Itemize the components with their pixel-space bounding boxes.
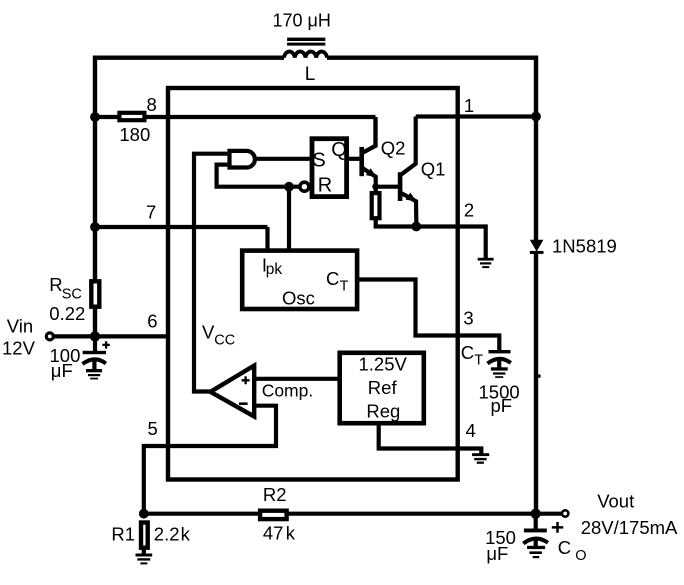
resistor R1	[141, 523, 148, 548]
svg-text:R2: R2	[263, 484, 287, 505]
ground under R1	[136, 548, 153, 565]
node junction on R input wire	[284, 182, 294, 192]
svg-text:Comp.: Comp.	[262, 381, 314, 401]
svg-text:C: C	[326, 268, 339, 289]
transistor Q1 emitter arrow	[406, 193, 417, 202]
inductor L coil	[284, 52, 327, 58]
capacitor 100uF stub	[93, 336, 97, 351]
node Vout	[531, 509, 541, 519]
wire left rail below Rsc	[93, 309, 97, 337]
Osc box	[242, 251, 357, 309]
transistor Q1 base bar	[398, 172, 403, 201]
label Ipk	[262, 255, 283, 278]
svg-text:28V/175mA: 28V/175mA	[581, 517, 678, 538]
svg-text:12V: 12V	[2, 338, 36, 359]
IC box MC34063	[168, 88, 458, 480]
svg-text:O: O	[575, 548, 586, 564]
wire right rail below diode	[534, 252, 538, 514]
transistor Q2 collector	[362, 118, 375, 153]
wire Vcc line to comparator	[194, 154, 227, 392]
wire pin 4	[379, 426, 482, 454]
wire top rail from left rail to inductor	[95, 56, 284, 60]
svg-text:R1: R1	[111, 524, 135, 545]
capacitor Ct top plate	[489, 350, 511, 353]
transistor Q2 emitter arrow	[366, 168, 377, 177]
svg-text:SC: SC	[62, 286, 82, 302]
capacitor Co curved plate	[523, 539, 548, 544]
svg-text:3: 3	[463, 307, 473, 328]
svg-text:7: 7	[146, 201, 156, 222]
diode 1N5819	[530, 240, 544, 254]
inductor L core bars	[287, 38, 325, 46]
resistor between Q2 emitter and pin 2	[372, 193, 380, 218]
resistor 180	[119, 113, 144, 120]
capacitor Co top plate	[524, 529, 547, 533]
capacitor Ct curved plate	[488, 359, 511, 364]
svg-text:2: 2	[464, 200, 474, 221]
label 2.2k	[154, 524, 191, 545]
svg-text:T: T	[340, 279, 349, 295]
label Rsc	[49, 274, 82, 303]
transistor Q1 emitter	[401, 193, 416, 227]
svg-text:8: 8	[147, 94, 157, 115]
wire AND gate output to S input	[255, 157, 310, 161]
node Q2 emitter / Q1 base junction	[372, 183, 379, 190]
svg-text:0.22: 0.22	[49, 303, 85, 324]
wire pin 2	[374, 218, 486, 259]
svg-text:Osc: Osc	[282, 288, 315, 309]
svg-text:Q2: Q2	[381, 137, 406, 158]
capacitor 100uF curved plate	[83, 359, 106, 364]
wire junction to Osc box	[287, 187, 291, 250]
wire Q1 base	[376, 185, 400, 189]
svg-text:1.25V: 1.25V	[359, 354, 408, 375]
transistor Q2 emitter	[363, 168, 376, 191]
label Ct outside	[461, 342, 484, 369]
inverter bubble on R input	[300, 182, 309, 191]
svg-text:6: 6	[147, 310, 157, 331]
svg-text:Q: Q	[331, 139, 347, 161]
Ref Reg box	[340, 353, 424, 423]
wire pin 5	[144, 406, 276, 514]
comparator	[210, 366, 254, 417]
terminal Vin	[46, 333, 53, 340]
transistor Q2 base bar	[359, 147, 364, 176]
capacitor 100uF lead to ground	[92, 359, 96, 370]
label Vcc	[202, 321, 235, 348]
ground at pin 4	[472, 453, 489, 464]
ground at pin 2	[478, 258, 494, 268]
svg-text:47: 47	[263, 523, 284, 544]
wire AND gate lower input to R bubble	[217, 165, 300, 187]
wire pin 3 from Osc Ct output	[357, 280, 499, 352]
transistor Q1 collector	[401, 117, 416, 175]
wire Q output to Q2 base	[349, 157, 363, 161]
ground under 100uF	[86, 369, 102, 379]
svg-text:C: C	[461, 342, 474, 363]
svg-text:1N5819: 1N5819	[552, 236, 617, 257]
svg-text:1: 1	[464, 95, 474, 116]
svg-text:170 μH: 170 μH	[273, 11, 331, 31]
node R1 R2 junction	[139, 509, 149, 519]
SR latch box	[312, 139, 347, 197]
svg-text:2.2: 2.2	[154, 524, 180, 545]
svg-text:CC: CC	[214, 332, 235, 348]
svg-text:5: 5	[148, 418, 158, 439]
capacitor 100uF top plate	[83, 351, 106, 354]
node Vin	[90, 331, 100, 341]
wire pin 8	[95, 117, 376, 153]
svg-text:μF: μF	[486, 543, 508, 564]
svg-text:Vin: Vin	[7, 316, 33, 337]
wire top rail from inductor to right rail	[327, 56, 536, 60]
svg-text:Reg: Reg	[366, 401, 400, 422]
svg-text:R: R	[318, 174, 332, 196]
capacitor Co plus sign	[552, 522, 563, 533]
svg-text:S: S	[312, 150, 325, 172]
svg-text:Vout: Vout	[597, 491, 634, 512]
capacitor Co lead to ground	[534, 539, 538, 547]
resistor Rsc	[91, 281, 99, 306]
svg-text:k: k	[181, 524, 191, 545]
node pin 7 on left rail	[90, 222, 100, 232]
ground under Ct	[491, 367, 508, 378]
svg-text:pF: pF	[491, 395, 513, 416]
svg-text:4: 4	[466, 420, 476, 441]
wire comparator plus input to Ref box	[254, 377, 337, 381]
terminal Vout	[562, 510, 568, 516]
node pin 1 on right rail	[531, 112, 541, 122]
artifact tick on right rail	[538, 375, 541, 378]
wire left rail	[93, 56, 97, 280]
svg-text:k: k	[286, 523, 296, 544]
AND gate U1	[230, 151, 255, 168]
svg-text:Ref: Ref	[368, 377, 398, 398]
wire pin 6 from Vin terminal	[52, 334, 168, 338]
svg-text:C: C	[558, 537, 571, 558]
label 47k	[263, 523, 296, 544]
wire right rail	[534, 56, 538, 242]
node Q1 emitter on pin 2 wire	[411, 222, 421, 232]
label Ct inside Osc	[326, 268, 349, 295]
label Co	[558, 537, 587, 564]
svg-text:V: V	[202, 321, 215, 342]
svg-text:μF: μF	[51, 360, 73, 381]
svg-text:R: R	[49, 274, 62, 295]
svg-text:L: L	[305, 64, 316, 85]
resistor R2	[260, 511, 287, 519]
svg-text:180: 180	[119, 124, 150, 145]
capacitor 100uF plus sign	[102, 341, 109, 348]
node pin 8 on left rail	[90, 112, 100, 122]
capacitor Co stub	[534, 514, 538, 529]
capacitor Ct lead to ground	[497, 359, 501, 369]
comparator minus input sign	[239, 402, 248, 405]
wire pin 1	[416, 114, 536, 118]
ground under Co	[527, 546, 545, 558]
svg-text:Q1: Q1	[421, 158, 446, 179]
svg-text:T: T	[474, 352, 483, 368]
comparator plus input sign	[242, 376, 250, 384]
wire pin 7	[95, 227, 268, 250]
svg-text:pk: pk	[266, 261, 283, 278]
wire bottom feedback R2	[144, 512, 562, 516]
